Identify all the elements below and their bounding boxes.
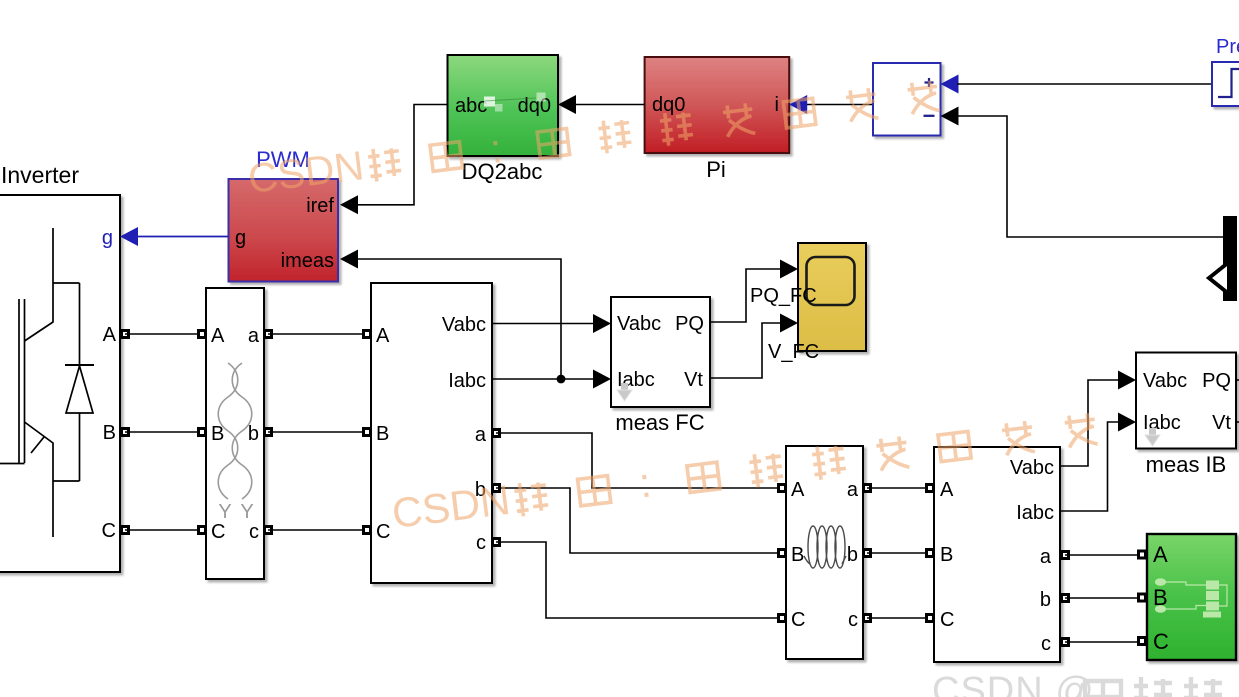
svg-text:Vt: Vt [1212, 412, 1231, 434]
svg-text:c: c [476, 532, 486, 554]
wire Demux to Sum minus [957, 116, 1223, 237]
arrow into Inverter g (blue) [120, 227, 138, 246]
port square Inverter C [122, 527, 129, 534]
svg-text:a: a [475, 424, 487, 446]
Demux open output arrow [1209, 262, 1229, 294]
svg-text:g: g [102, 227, 113, 249]
port square T1 c [265, 527, 272, 534]
block transformer T2 [786, 446, 863, 659]
wire M2 c to load C [1065, 641, 1141, 643]
svg-text:Vt: Vt [684, 369, 703, 391]
DQ2abc icon marks [484, 93, 546, 112]
wire PWM g to Inverter g (blue selected) [137, 236, 229, 238]
svg-text:Iabc: Iabc [448, 370, 486, 392]
svg-text:B: B [791, 544, 804, 566]
wire M1 Vabc to meas FC Vabc [492, 323, 593, 325]
wire M2 Vabc to meas IB Vabc [1060, 380, 1118, 466]
arrow into scope input 2 [780, 314, 798, 333]
Sum plus sign [925, 78, 934, 87]
arrow into PWM iref [340, 195, 358, 214]
IGBT gate lead [0, 463, 25, 465]
diode cathode bar [65, 364, 94, 366]
port square T2 A [779, 485, 786, 492]
port square Inverter B [122, 429, 129, 436]
wire M1 Iabc to meas FC Iabc [492, 378, 593, 380]
watermark CSDN bottom gray [932, 670, 1222, 697]
svg-text:dq0: dq0 [652, 94, 685, 116]
svg-text:Inverter: Inverter [1, 162, 79, 188]
svg-text:b: b [1040, 589, 1051, 611]
svg-text:Iabc: Iabc [1016, 502, 1054, 524]
port square Inverter A [122, 331, 129, 338]
wire DQ2abc abc to PWM iref [357, 105, 448, 205]
port square load A [1139, 551, 1146, 558]
svg-text:Pi: Pi [706, 157, 726, 182]
port square T2 b [864, 550, 871, 557]
svg-text:C: C [1153, 629, 1169, 654]
svg-text:Vabc: Vabc [442, 314, 486, 336]
watermark CSDN diagonal line 1 [245, 72, 940, 202]
port square M1 C [364, 527, 371, 534]
block Inverter (universal bridge) [0, 195, 120, 572]
svg-text:PQ: PQ [675, 313, 704, 335]
block transformer T1 (Y-Y) [206, 288, 264, 579]
watermark CSDN diagonal line 2 [389, 404, 1098, 537]
svg-text:Pref: Pref [1216, 36, 1239, 58]
svg-text:abc: abc [455, 95, 487, 117]
svg-text:B: B [376, 423, 389, 445]
arrow into meas FC Vabc [593, 314, 611, 333]
IGBT collector [25, 283, 54, 341]
port square T1 B [199, 429, 206, 436]
svg-text:g: g [235, 227, 246, 249]
IGBT top lead [52, 228, 54, 283]
arrow into Sum plus (blue) [941, 75, 959, 94]
port square M1 a [493, 430, 500, 437]
Demux black bar [1223, 216, 1237, 301]
wire M2 a to load A [1065, 554, 1141, 556]
wire T2 b to M2 B [867, 552, 930, 554]
wire T2 c to M2 C [867, 617, 930, 619]
svg-text:C: C [102, 520, 116, 542]
load circuit icon [1156, 579, 1228, 618]
port square M1 b [493, 485, 500, 492]
svg-text:Y: Y [240, 501, 253, 523]
IGBT gate bars [19, 299, 25, 463]
wire M2 b to load B [1065, 597, 1141, 599]
block DQ2abc [448, 55, 559, 156]
svg-text:Vabc: Vabc [617, 313, 661, 335]
block PWM (selected) [229, 179, 339, 282]
svg-text:CSDN @: CSDN @ [932, 670, 1095, 697]
junction node on Iabc wire [557, 375, 566, 384]
block three-phase V-I measurement 2 [934, 447, 1060, 662]
wire junction to PWM imeas [357, 259, 561, 379]
svg-text:A: A [940, 479, 954, 501]
wire M1 c to T2 C [496, 542, 778, 618]
Pref step symbol [1218, 69, 1239, 97]
IGBT emitter [25, 422, 54, 481]
svg-text:c: c [249, 521, 259, 543]
arrow into scope input 1 [780, 260, 798, 279]
wire meas IB Vt stub [1236, 421, 1239, 423]
port square T2 c [864, 615, 871, 622]
port square M1 A [364, 331, 371, 338]
Sum minus sign [924, 115, 935, 117]
arrow into DQ2abc dq0 [558, 95, 576, 114]
svg-text:PQ: PQ [1202, 370, 1231, 392]
svg-text:i: i [775, 94, 779, 116]
block three-phase load (green) [1147, 534, 1236, 660]
Scope screen [807, 257, 855, 305]
svg-text:B: B [940, 544, 953, 566]
port square T2 B [779, 550, 786, 557]
block meas IB [1136, 353, 1236, 449]
wire M1 a to T2 A [496, 433, 778, 488]
svg-text:a: a [847, 479, 859, 501]
block Pi [645, 57, 790, 153]
svg-text:Y: Y [218, 501, 231, 523]
port square M1 B [364, 429, 371, 436]
block Scope [798, 243, 866, 351]
arrow into meas IB Vabc [1118, 371, 1136, 390]
port square M1 c [493, 539, 500, 546]
arrow into Sum minus [941, 107, 959, 126]
svg-text:b: b [847, 544, 858, 566]
port square M2 A [927, 485, 934, 492]
block Sum (selected) [873, 63, 941, 136]
IGBT emitter arrow tick [31, 437, 44, 453]
diode branch vertical [79, 283, 81, 481]
port square T1 a [265, 331, 272, 338]
diode triangle [66, 366, 93, 413]
port square M2 C [927, 615, 934, 622]
svg-text:a: a [1040, 546, 1052, 568]
block three-phase V-I measurement 1 [371, 283, 492, 583]
port square T2 C [779, 615, 786, 622]
svg-text:V_FC: V_FC [768, 341, 819, 363]
meas FC gray anchor icon [617, 383, 632, 401]
svg-text:PQ_FC: PQ_FC [750, 285, 817, 307]
T1 winding symbol right [232, 363, 252, 499]
svg-text:A: A [211, 325, 225, 347]
port square T1 C [199, 527, 206, 534]
T1 winding symbol left [218, 363, 238, 499]
svg-text:meas FC: meas FC [615, 410, 704, 435]
port square M2 b [1062, 595, 1069, 602]
svg-text:c: c [1041, 633, 1051, 655]
block Pref step source (selected) [1212, 62, 1239, 106]
wire Sum out to Pi i [807, 104, 873, 106]
IGBT bottom lead [52, 481, 54, 537]
arrow into PWM imeas [340, 250, 358, 269]
wire T1 a to meas block1 A [268, 333, 367, 335]
wire T2 a to M2 A [867, 487, 930, 489]
wire Inverter B to transformer1 B [125, 431, 202, 433]
wire meas IB PQ stub [1236, 379, 1239, 381]
port square M2 c [1062, 639, 1069, 646]
wire Inverter C to transformer1 C [125, 529, 202, 531]
arrow into meas IB Iabc [1118, 413, 1136, 432]
port square T1 A [199, 331, 206, 338]
wire meas FC Vt to scope [710, 323, 780, 378]
block meas FC [611, 297, 710, 407]
wire M2 Iabc to meas IB Iabc [1060, 422, 1118, 511]
meas IB gray anchor icon [1145, 428, 1160, 446]
svg-text:meas IB: meas IB [1146, 452, 1227, 477]
svg-text:Iabc: Iabc [1143, 412, 1181, 434]
wire T1 c to meas block1 C [268, 529, 367, 531]
arrow into meas FC Iabc [593, 370, 611, 389]
svg-text:Vabc: Vabc [1010, 457, 1054, 479]
arrow into Pi i (blue) [789, 95, 807, 114]
svg-text:C: C [791, 609, 805, 631]
svg-text:iref: iref [306, 195, 334, 217]
svg-text:b: b [248, 423, 259, 445]
wire M1 b to T2 B [496, 488, 778, 553]
port square load B [1139, 594, 1146, 601]
svg-text:C: C [376, 521, 390, 543]
svg-text:imeas: imeas [281, 250, 334, 272]
svg-text:C: C [940, 609, 954, 631]
svg-text:A: A [103, 324, 117, 346]
wire T1 b to meas block1 B [268, 431, 367, 433]
svg-text:a: a [248, 325, 260, 347]
port square M2 a [1062, 552, 1069, 559]
port square T2 a [864, 485, 871, 492]
svg-text:A: A [791, 479, 805, 501]
svg-text:c: c [848, 609, 858, 631]
port square load C [1139, 638, 1146, 645]
svg-text:B: B [103, 422, 116, 444]
wire Inverter A to transformer1 A [125, 333, 202, 335]
wire meas FC PQ to scope [710, 269, 780, 322]
svg-text:A: A [1153, 542, 1168, 567]
svg-text:Vabc: Vabc [1143, 370, 1187, 392]
T2 coil symbol [804, 526, 846, 568]
wire Pi dq0 to DQ2abc dq0 [576, 104, 645, 106]
IGBT bottom node horizontal [53, 480, 80, 482]
wire Pref step to Sum plus [957, 83, 1212, 85]
svg-text:C: C [211, 521, 225, 543]
port square T1 b [265, 429, 272, 436]
svg-text:A: A [376, 325, 390, 347]
port square M2 B [927, 550, 934, 557]
IGBT top node horizontal [53, 282, 80, 284]
